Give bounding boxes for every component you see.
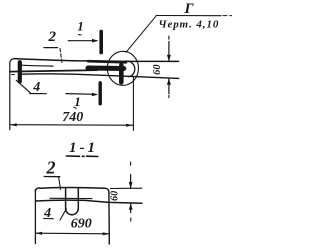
- section mark tick top: [99, 32, 103, 53]
- svg-text:60: 60: [110, 191, 121, 201]
- hook vertical thick bar: [119, 65, 124, 82]
- centerline dash: [12, 74, 15, 76]
- strip top edge (main view): [14, 59, 179, 62]
- dim 60 section: stem bottom dash: [130, 218, 132, 221]
- leader to callout: [126, 16, 156, 52]
- svg-text:1-1: 1-1: [69, 140, 98, 156]
- label 1 bottom underline dash: [74, 107, 77, 108]
- label 4 underline (section): [44, 218, 54, 220]
- strip inner line A: [21, 64, 53, 67]
- svg-text:4: 4: [43, 206, 51, 221]
- dim 60 section: top extension: [111, 187, 142, 189]
- label 2 leader (section): [59, 177, 61, 189]
- dim 60 main: stem bottom: [168, 79, 170, 94]
- rounded corner + left extension line of 740: [10, 59, 14, 130]
- section bar bottom edge + 60 extension: [36, 200, 142, 203]
- dim 60 section: stem bottom: [130, 203, 132, 212]
- label 2 underline (section): [44, 176, 60, 178]
- section bar inner line: [50, 197, 92, 199]
- label 2 underline (main): [44, 47, 58, 49]
- svg-text:4: 4: [32, 80, 40, 95]
- svg-text:1: 1: [74, 94, 81, 109]
- left end thick bar (bent tab): [18, 62, 22, 81]
- callout bar dashes: [223, 15, 232, 17]
- dim 60 main: stem top dash: [168, 36, 170, 39]
- curled end (180 deg bend): [125, 61, 135, 77]
- section arrow top: [68, 40, 96, 42]
- dim 740 line: [10, 124, 132, 127]
- dim 740 right extension: [132, 77, 134, 130]
- section bar top edge: [40, 187, 106, 190]
- svg-text:Г: Г: [183, 1, 194, 17]
- section bar right edge + 690 right extension: [108, 193, 110, 245]
- detail circle Г: [107, 51, 138, 85]
- thick band near hook: [88, 66, 124, 72]
- dim 60 main: stem bottom dash: [168, 95, 170, 98]
- dim 60 section: stem top dash: [130, 162, 132, 165]
- section arrow bottom: [66, 93, 96, 96]
- dim 60 main: stem top: [168, 42, 170, 62]
- title 1-1 underline: [66, 155, 98, 158]
- label 4 leader (section): [60, 209, 66, 220]
- svg-text:Черт. 4,10: Черт. 4,10: [158, 19, 219, 31]
- svg-text:690: 690: [71, 217, 92, 232]
- label 2 leader (main): [60, 49, 62, 64]
- svg-text:1: 1: [77, 19, 84, 34]
- svg-text:740: 740: [62, 110, 83, 125]
- svg-text:2: 2: [47, 29, 56, 45]
- strip top edge thick segment: [88, 61, 126, 62]
- section bar left edge + 690 left extension: [34, 190, 36, 244]
- U slot: [66, 188, 79, 215]
- label 4 leader (main): [16, 80, 30, 93]
- section bar right corner: [105, 188, 109, 192]
- strip line B / axis: [10, 70, 97, 72]
- callout fraction bar: [156, 15, 221, 17]
- label 4 underline (main): [30, 93, 47, 95]
- svg-text:2: 2: [46, 158, 56, 178]
- dim 690 line: [36, 232, 110, 235]
- section mark tick bottom: [98, 83, 101, 104]
- svg-text:60: 60: [152, 64, 163, 75]
- section bar left corner: [35, 188, 39, 192]
- dim 60 section: stem top: [130, 175, 132, 189]
- label 1 top underline dash: [79, 34, 82, 36]
- strip bottom edge C: [21, 74, 179, 79]
